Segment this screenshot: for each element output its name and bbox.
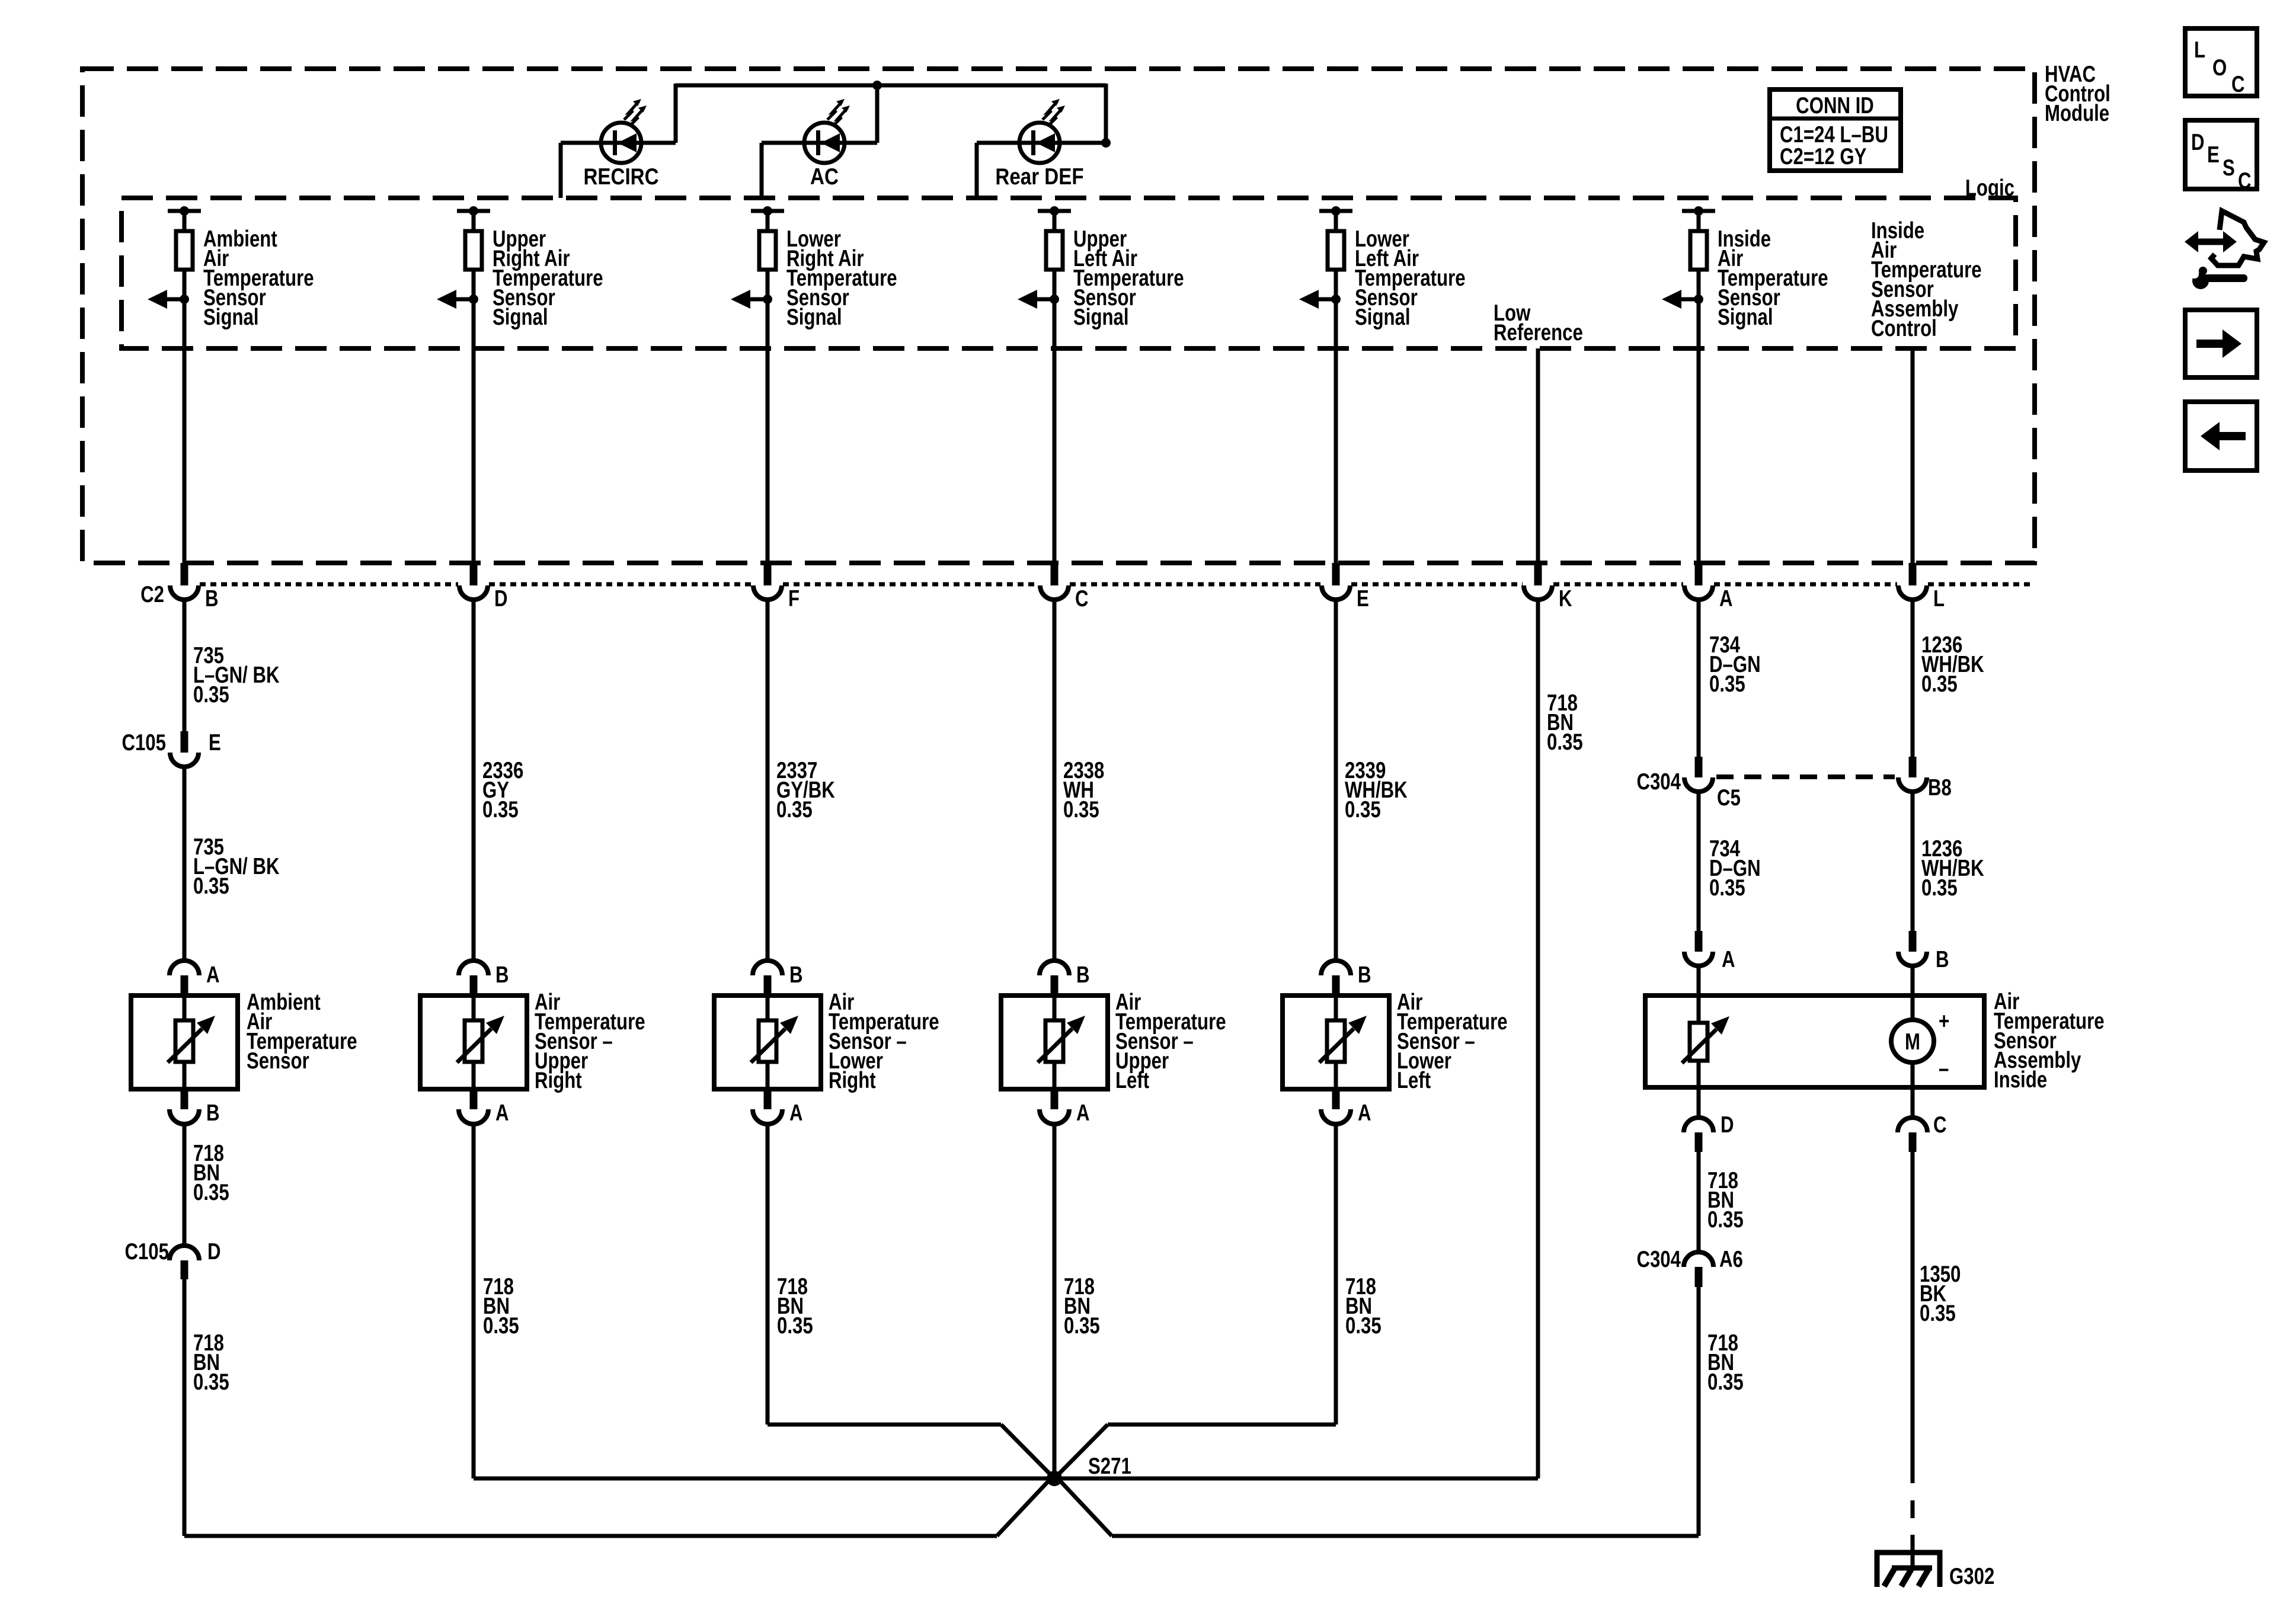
svg-text:B: B (1358, 962, 1371, 988)
Logic dashed box (121, 198, 2016, 348)
svg-text:Module: Module (2045, 101, 2109, 126)
svg-text:0.35: 0.35 (483, 1313, 519, 1339)
wire 735 L-GN/BK upper segment (183, 600, 187, 732)
connector C2 pin D (470, 563, 478, 585)
svg-text:0.35: 0.35 (193, 873, 229, 899)
wire inside sensor assembly control inside module (1911, 348, 1915, 563)
svg-text:A: A (1722, 947, 1735, 972)
inside air temp sensor signal terminal bar (1682, 209, 1715, 213)
air temperature sensor assembly inside box (1645, 996, 1984, 1087)
connector C2 pin B (181, 563, 188, 585)
wire into assembly motor (1911, 966, 1915, 1021)
svg-text:A: A (206, 962, 220, 988)
svg-text:B: B (495, 962, 509, 988)
air temperature sensor box Upper Left (1001, 996, 1108, 1089)
svg-text:0.35: 0.35 (776, 797, 813, 822)
svg-text:Signal: Signal (786, 305, 842, 330)
upper right air temp sensor signal signal arrow (456, 297, 474, 302)
svg-text:D: D (494, 586, 508, 612)
svg-text:AC: AC (810, 163, 839, 189)
indicator LED RECIRC (601, 123, 641, 163)
wire rail upper (lower right / lower left sensors) (768, 1423, 1001, 1427)
svg-text:Inside: Inside (1994, 1067, 2047, 1093)
connector sensor pin A (1332, 1089, 1340, 1109)
svg-text:C: C (1075, 586, 1089, 612)
svg-text:Reference: Reference (1494, 320, 1583, 345)
svg-text:B: B (1076, 962, 1090, 988)
connector sensor pin B (181, 1089, 188, 1109)
svg-text:Rear DEF: Rear DEF (995, 163, 1083, 189)
lower left air temp sensor signal terminal bar (1319, 209, 1352, 213)
wire 718 BN low reference to splice (1536, 600, 1540, 1478)
wire diagonal from splice down (997, 1477, 1053, 1536)
svg-text:0.35: 0.35 (1547, 729, 1583, 755)
wire 718 BN lower-right sensor to splice rail (766, 1124, 770, 1425)
svg-text:C: C (1933, 1112, 1947, 1138)
svg-text:A: A (495, 1100, 509, 1126)
svg-text:0.35: 0.35 (1707, 1369, 1744, 1395)
svg-text:A6: A6 (1719, 1247, 1743, 1272)
icon harness routing (double arrow, outline, wrench) (2195, 239, 2226, 245)
air temperature sensor box Lower Left (1283, 996, 1389, 1089)
svg-text:B: B (789, 962, 803, 988)
icon back arrow box (2185, 402, 2257, 470)
wire rail middle (upper right sensor / low reference) (474, 1477, 1538, 1481)
connector C304 pin C5 (1695, 757, 1703, 777)
wire diagonal into splice (1001, 1425, 1056, 1480)
connector assembly pin C (1911, 1087, 1915, 1119)
svg-text:0.35: 0.35 (1920, 1301, 1956, 1326)
svg-text:RECIRC: RECIRC (583, 163, 658, 189)
svg-text:B: B (205, 586, 219, 612)
upper right air temp sensor signal resistor (472, 211, 476, 232)
lower right air temp sensor signal resistor (766, 211, 770, 232)
svg-text:K: K (1559, 586, 1572, 612)
svg-text:O: O (2212, 55, 2227, 81)
svg-text:Left: Left (1397, 1068, 1431, 1093)
svg-text:A: A (1076, 1100, 1090, 1126)
air temperature sensor box Upper Right (420, 996, 527, 1089)
connector C105 pin E (181, 731, 188, 753)
svg-text:L: L (2194, 37, 2205, 63)
lower right air temp sensor signal terminal bar (751, 209, 784, 213)
svg-text:0.35: 0.35 (1709, 671, 1745, 697)
wire 735 L-GN/BK lower segment (183, 767, 187, 961)
node Rear DEF junction (1101, 138, 1111, 148)
connector sensor pin B (1040, 961, 1069, 975)
svg-text:C304: C304 (1636, 769, 1681, 795)
svg-text:S: S (2223, 155, 2235, 181)
wire Rear DEF LED row (977, 141, 1106, 145)
wire 1350 BK hidden segment (1911, 1500, 1915, 1518)
svg-text:M: M (1905, 1029, 1920, 1055)
lower right air temp sensor signal signal arrow (750, 297, 768, 302)
wire 718 BN upper-left sensor to splice (1053, 1124, 1057, 1478)
wire LED supply bus (676, 84, 1106, 88)
indicator LED Rear DEF (1019, 123, 1060, 163)
connector assembly pin A (1695, 931, 1703, 952)
svg-text:C304: C304 (1636, 1247, 1681, 1272)
connector sensor pin A (470, 1089, 478, 1109)
wire AC LED row (762, 141, 877, 145)
wire 718 BN to splice (183, 1279, 187, 1536)
svg-text:Signal: Signal (1355, 305, 1411, 330)
wire 2337 segment (766, 600, 770, 961)
icon DESC box (2185, 120, 2257, 189)
svg-text:D: D (2191, 130, 2205, 155)
svg-text:E: E (1357, 586, 1369, 612)
svg-text:Right: Right (829, 1068, 876, 1093)
connector sensor pin A (1051, 1089, 1059, 1109)
svg-text:0.35: 0.35 (193, 682, 229, 708)
svg-text:0.35: 0.35 (1707, 1207, 1744, 1233)
indicator LED AC (804, 123, 845, 163)
connector sensor pin B (1321, 961, 1351, 975)
connector C2 pin L (1909, 563, 1917, 585)
wire 2338 segment (1053, 600, 1057, 961)
upper right air temp sensor signal terminal bar (457, 209, 490, 213)
svg-text:L: L (1933, 586, 1945, 612)
wire 718 BN segment (183, 1124, 187, 1246)
connector C2 pin K (1534, 563, 1542, 585)
wire rail lower (ambient / inside sensor) (184, 1534, 997, 1538)
connector C2 pin C (1051, 563, 1059, 585)
inside air temp sensor signal resistor (1697, 211, 1701, 232)
connector C2 pin E (1332, 563, 1340, 585)
wire into assembly (1697, 966, 1701, 1022)
node bus junction (872, 81, 882, 90)
svg-text:D: D (207, 1239, 221, 1265)
svg-text:B8: B8 (1928, 775, 1952, 801)
upper left air temp sensor signal terminal bar (1038, 209, 1071, 213)
wire 2336 segment (472, 600, 476, 961)
connector assembly pin B (1909, 931, 1917, 952)
svg-text:0.35: 0.35 (193, 1369, 229, 1395)
svg-text:S271: S271 (1088, 1454, 1131, 1479)
svg-text:A: A (789, 1100, 803, 1126)
svg-text:0.35: 0.35 (193, 1180, 229, 1205)
inside air temp sensor signal signal arrow (1681, 297, 1699, 302)
svg-text:0.35: 0.35 (1921, 875, 1958, 901)
svg-text:C105: C105 (124, 1239, 169, 1265)
ambient air temp sensor signal resistor (183, 211, 187, 232)
wire 734 D-GN lower segment (1697, 792, 1701, 932)
HVAC Control Module dashed box (82, 69, 2035, 563)
svg-text:Logic: Logic (1965, 175, 2014, 201)
icon forward arrow box (2185, 310, 2257, 377)
svg-text:Left: Left (1115, 1068, 1149, 1093)
ambient air temp sensor signal signal arrow (167, 297, 184, 302)
CONN ID table (1770, 89, 1901, 171)
wire 718 BN lower-left sensor to splice rail (1334, 1124, 1338, 1425)
ambient air temp sensor signal terminal bar (168, 209, 201, 213)
motor M (1891, 1020, 1934, 1062)
connector C304 pin B8 (1909, 757, 1917, 777)
svg-text:0.35: 0.35 (1063, 797, 1099, 822)
svg-text:Signal: Signal (1073, 305, 1129, 330)
svg-text:+: + (1939, 1009, 1949, 1034)
svg-text:E: E (209, 730, 221, 756)
lower left air temp sensor signal signal arrow (1318, 297, 1336, 302)
svg-text:0.35: 0.35 (1921, 671, 1958, 697)
connector C105 pin D (170, 1246, 199, 1260)
connector C304 pin A6 (1684, 1252, 1713, 1267)
svg-text:Control: Control (1871, 316, 1937, 341)
wire Rear DEF right to bus (1104, 84, 1108, 143)
wire RECIRC right to bus (674, 84, 678, 143)
wire AC right to bus (875, 85, 880, 143)
svg-text:0.35: 0.35 (777, 1313, 813, 1339)
lower left air temp sensor signal resistor (1334, 211, 1338, 232)
svg-text:Right: Right (535, 1068, 582, 1093)
connector sensor pin A (764, 1089, 772, 1109)
svg-text:Signal: Signal (203, 305, 259, 330)
svg-text:B: B (206, 1100, 220, 1126)
connector sensor pin B (753, 961, 782, 975)
svg-text:C5: C5 (1717, 785, 1741, 811)
svg-text:0.35: 0.35 (1064, 1313, 1100, 1339)
connector sensor pin A (170, 961, 199, 975)
svg-text:Signal: Signal (493, 305, 548, 330)
connector sensor pin B (459, 961, 488, 975)
wire 1236 WH/BK upper segment (1911, 600, 1915, 758)
svg-text:C: C (2231, 72, 2245, 97)
svg-text:CONN ID: CONN ID (1796, 93, 1874, 119)
connector assembly pin D (1697, 1087, 1701, 1119)
svg-text:B: B (1936, 947, 1949, 972)
svg-text:C2=12 GY: C2=12 GY (1780, 144, 1866, 169)
connector C2 dotted interface line (200, 582, 458, 587)
svg-text:F: F (788, 586, 800, 612)
icon LOC box (2185, 28, 2257, 96)
svg-text:Sensor: Sensor (247, 1048, 309, 1074)
svg-text:C: C (2238, 168, 2252, 194)
svg-text:0.35: 0.35 (1709, 875, 1745, 901)
wire low reference inside module (1536, 348, 1540, 563)
svg-text:C105: C105 (121, 730, 166, 756)
svg-text:0.35: 0.35 (1345, 797, 1381, 822)
wire 718 BN to splice rail (1697, 1287, 1701, 1536)
wire 2339 segment (1334, 600, 1338, 961)
svg-text:A: A (1719, 586, 1733, 612)
svg-text:G302: G302 (1949, 1564, 1994, 1589)
connector C2 pin F (764, 563, 772, 585)
wire 1350 BK motor ground (1911, 1152, 1915, 1483)
air temperature sensor box Lower Right (714, 996, 821, 1089)
svg-text:0.35: 0.35 (1345, 1313, 1382, 1339)
svg-text:0.35: 0.35 (482, 797, 519, 822)
svg-text:Signal: Signal (1718, 305, 1773, 330)
svg-text:C2: C2 (140, 582, 164, 607)
ambient air temperature sensor box (131, 996, 238, 1089)
wire 718 BN below assembly (1697, 1152, 1701, 1253)
upper left air temp sensor signal resistor (1053, 211, 1057, 232)
upper left air temp sensor signal signal arrow (1037, 297, 1054, 302)
connector C2 pin A (1695, 563, 1703, 585)
wire RECIRC LED row (561, 141, 676, 145)
wire 734 D-GN upper segment (1697, 600, 1701, 758)
svg-text:–: – (1939, 1056, 1949, 1081)
splice S271 (1047, 1471, 1062, 1486)
wire 718 BN upper-right sensor to splice rail (472, 1124, 476, 1478)
ground G302 (1877, 1553, 1940, 1587)
connector C304 dashed line (1716, 774, 1895, 779)
svg-text:E: E (2207, 142, 2220, 168)
wire 1236 WH/BK lower segment (1911, 792, 1915, 932)
svg-text:A: A (1358, 1100, 1371, 1126)
svg-text:D: D (1721, 1112, 1734, 1138)
